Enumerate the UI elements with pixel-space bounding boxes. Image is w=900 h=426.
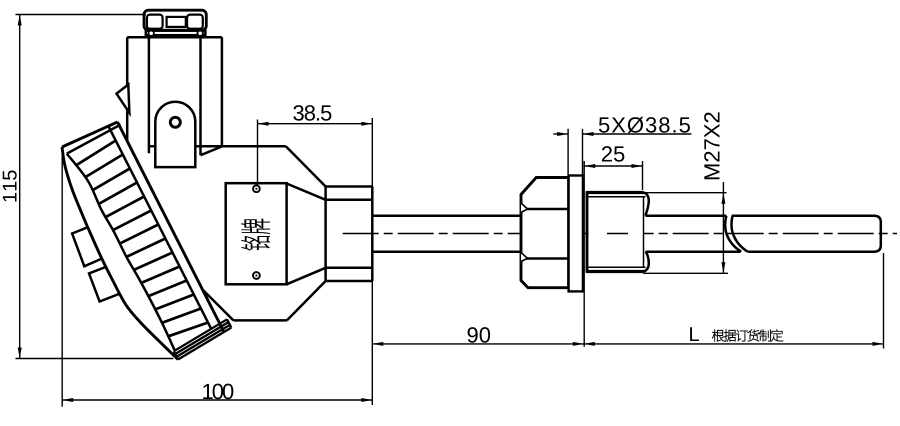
neck bbox=[326, 187, 373, 282]
tube to break top bbox=[646, 214, 727, 217]
nut chamfer wedge bottom bbox=[521, 253, 528, 262]
conduit crescent band bbox=[62, 147, 178, 360]
dim 5xd38.5 line bbox=[553, 132, 691, 136]
dim 38.5 text bbox=[293, 105, 331, 121]
cone transition bottom bbox=[287, 268, 326, 285]
plate screw left bbox=[149, 31, 154, 36]
nameplate text 铭牌 bbox=[242, 219, 270, 250]
hex nut bbox=[521, 178, 569, 288]
nameplate rivet top bbox=[253, 185, 260, 192]
dim 115 line bbox=[18, 15, 22, 359]
extension line x372 bbox=[371, 118, 373, 405]
thread white fill bbox=[587, 193, 644, 272]
dim L ext right bbox=[883, 253, 885, 349]
tube neck-to-nut bottom bbox=[372, 250, 520, 253]
thread end edge bbox=[643, 197, 645, 267]
dim 25 text bbox=[602, 146, 624, 162]
extension line x584 bbox=[583, 161, 585, 347]
tube neck-to-nut top bbox=[372, 214, 520, 217]
cap facet center bbox=[167, 17, 186, 27]
dim 100 line bbox=[62, 398, 372, 402]
dome bracket bbox=[155, 102, 195, 167]
body chamfer bottom-right bbox=[287, 281, 326, 320]
nameplate bbox=[226, 183, 287, 284]
clamp flag triangle bbox=[117, 85, 130, 113]
thread minor top bbox=[588, 196, 646, 198]
dim L line bbox=[584, 342, 884, 346]
drum edge top bbox=[62, 122, 118, 147]
dim M27X2 text bbox=[704, 112, 719, 179]
body top edge bbox=[149, 145, 285, 148]
thread runout bottom bbox=[644, 252, 649, 272]
tube tip bbox=[732, 216, 881, 252]
cap facet left bbox=[147, 15, 163, 29]
nut facet line top bbox=[522, 208, 569, 211]
dim 115 extension top bbox=[16, 14, 147, 16]
cap hex head bbox=[144, 10, 206, 30]
nut chamfer wedge top bbox=[521, 203, 528, 213]
dim 100 text bbox=[203, 384, 233, 400]
drum top end inner line bbox=[67, 125, 121, 154]
dim L chinese text 根据订货制定 bbox=[712, 330, 783, 342]
thread minor bottom bbox=[588, 266, 646, 268]
body chamfer top-right bbox=[286, 146, 326, 186]
dim M27X2 ext bottom bbox=[643, 272, 728, 274]
connection head housing bbox=[127, 37, 222, 155]
dim 25 ext right bbox=[642, 161, 644, 190]
dim 38.5 line bbox=[258, 122, 373, 126]
conduit tab 2 bbox=[89, 265, 121, 301]
thread major top bbox=[586, 191, 644, 194]
break curve left bbox=[725, 216, 741, 252]
dim 115 text bbox=[3, 170, 17, 201]
dim 5xd38.5 text bbox=[599, 117, 690, 133]
thread centerline dash bbox=[607, 233, 628, 235]
plate screw right bbox=[198, 31, 203, 36]
cap base plate bbox=[146, 31, 206, 36]
cap facet right bbox=[187, 15, 203, 29]
dim L text bbox=[690, 327, 699, 341]
nameplate rivet bottom bbox=[253, 272, 260, 279]
drum edge right bbox=[118, 122, 225, 332]
crescent outer curve bbox=[62, 147, 178, 360]
dim 115 extension bottom bbox=[16, 358, 174, 360]
dim M27X2 ext top bbox=[645, 192, 727, 194]
cone transition top bbox=[287, 184, 326, 200]
washer bbox=[569, 176, 583, 292]
body bottom edge bbox=[233, 319, 287, 322]
bracket hole bbox=[170, 117, 180, 127]
dim 90 line bbox=[372, 342, 584, 346]
dim 5xd38.5 ext lines bbox=[568, 129, 582, 176]
dim 25 line bbox=[584, 164, 642, 168]
thread runout top bbox=[644, 193, 649, 216]
dim 100 ext left bbox=[61, 151, 63, 407]
nut facet line bottom bbox=[522, 257, 569, 260]
drum ferrule bbox=[174, 319, 232, 359]
dim 90 text bbox=[468, 327, 491, 343]
drum ribs bbox=[76, 141, 208, 337]
probe centerline bbox=[343, 233, 897, 235]
drum inner right line bbox=[109, 127, 212, 329]
dim M27X2 line bbox=[721, 182, 725, 273]
flexible conduit drum bbox=[62, 122, 224, 360]
dim 38.5 ext left bbox=[257, 120, 259, 186]
conduit tab 1 bbox=[72, 225, 105, 266]
crescent inner curve bbox=[67, 154, 175, 350]
thread major bottom bbox=[586, 270, 644, 273]
break curve right bbox=[731, 216, 747, 252]
thread left edge bbox=[586, 192, 589, 273]
tube to break bottom bbox=[646, 250, 741, 253]
body chamfer bottom-left bbox=[203, 290, 233, 320]
